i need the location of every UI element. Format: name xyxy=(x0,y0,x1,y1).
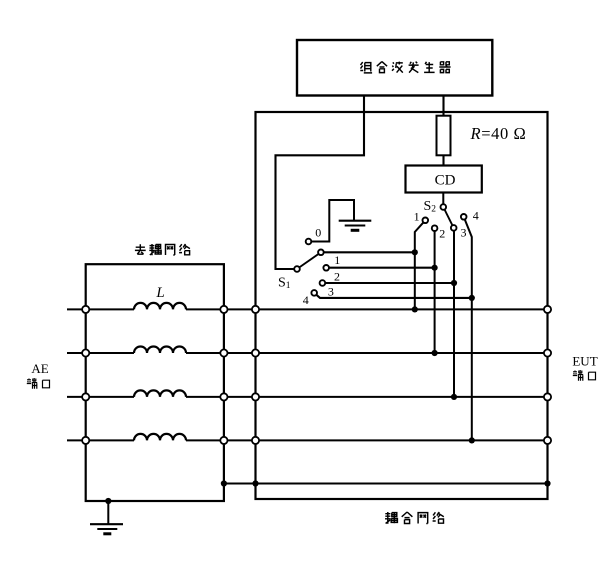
svg-text:4: 4 xyxy=(473,209,479,223)
wire: power line 1 xyxy=(67,308,548,310)
node: wire1/V1 junction xyxy=(412,249,418,255)
decoupling network box xyxy=(86,264,224,501)
switch S2 arm (pole to contact 3) xyxy=(443,207,453,228)
terminal: line 3 at coupling right edge xyxy=(544,393,551,400)
node: wire3/V3 junction xyxy=(451,280,457,286)
terminal: line 2 at decoupling left edge xyxy=(82,349,89,356)
terminal: line 4 at coupling right edge xyxy=(544,437,551,444)
wire: S1 contact 4 to node V4 xyxy=(314,293,472,298)
label "耦合网络" (coupling network label) xyxy=(385,512,444,524)
CD box (coupling device) xyxy=(406,166,482,193)
wire: CD to S2 pole xyxy=(442,193,444,208)
svg-text:EUT: EUT xyxy=(572,353,597,368)
wire: power line 3 xyxy=(67,396,548,398)
terminal: line 1 at coupling right edge xyxy=(544,306,551,313)
label "去耦网络" (decoupling network label) xyxy=(135,244,190,255)
node: ground tap on decoupling box xyxy=(105,498,111,504)
S2 contact 1 xyxy=(423,218,429,224)
switch S2 pole xyxy=(441,204,447,210)
earth/ground symbol lower xyxy=(90,524,123,534)
wire: generator left output to S1 pole xyxy=(276,96,365,270)
S2 contact 4 xyxy=(461,214,467,220)
S1 contact 0 xyxy=(306,239,312,245)
earth/ground symbol upper xyxy=(339,221,372,231)
svg-text:2: 2 xyxy=(439,227,445,241)
terminal: line 4 at decoupling right edge xyxy=(220,437,227,444)
switch S1 arm (pole to contact 1) xyxy=(297,252,321,269)
wire: S1 contact 0 to earth bracket xyxy=(309,200,355,242)
wire: resistor to CD box xyxy=(442,155,444,166)
inductor L on line 4 xyxy=(134,434,186,441)
label "端口" (AE port cjk) xyxy=(27,378,50,389)
svg-text:R=40 Ω: R=40 Ω xyxy=(470,124,527,143)
svg-text:0: 0 xyxy=(315,226,321,240)
node: wire4/V4 junction xyxy=(469,295,475,301)
terminal: line 2 at decoupling right edge xyxy=(220,349,227,356)
node: wire2/V2 junction xyxy=(432,265,438,271)
terminal: line 1 at coupling left edge xyxy=(252,306,259,313)
S1 contact 1 xyxy=(318,250,324,256)
wire: S1 contact 1 to node V1 xyxy=(321,251,415,253)
node: V4 on line 4 xyxy=(469,437,475,443)
S1 contact 2 xyxy=(323,265,329,271)
terminal: line 1 at decoupling right edge xyxy=(220,306,227,313)
terminal: line 4 at coupling left edge xyxy=(252,437,259,444)
S1 contact 3 xyxy=(320,280,326,286)
node: PE at coupling box left edge xyxy=(252,480,258,486)
svg-text:4: 4 xyxy=(303,293,309,307)
terminal: line 2 at coupling left edge xyxy=(252,349,259,356)
inductor L on line 3 xyxy=(134,390,186,397)
terminal: line 1 at decoupling left edge xyxy=(82,306,89,313)
terminal: line 3 at decoupling right edge xyxy=(220,393,227,400)
wire: S1 contact 3 to node V3 xyxy=(322,282,454,284)
wire: power line 4 xyxy=(67,439,548,441)
S2 contact 2 xyxy=(432,225,438,231)
S1 contact 4 xyxy=(311,290,317,296)
svg-text:2: 2 xyxy=(334,269,340,283)
wire: S1 contact 2 to node V2 xyxy=(326,267,434,269)
svg-text:L: L xyxy=(155,285,164,301)
generator box U1 (combination wave generator) xyxy=(297,40,492,96)
terminal: line 4 at decoupling left edge xyxy=(82,437,89,444)
inductor L on line 1 xyxy=(134,303,186,309)
wire: S2 contact 1 drop to line 1 xyxy=(415,220,426,309)
terminal: line 2 at coupling right edge xyxy=(544,349,551,356)
svg-text:1: 1 xyxy=(334,253,340,267)
resistor R = 40 ohm xyxy=(437,116,451,156)
terminal: line 3 at coupling left edge xyxy=(252,393,259,400)
node: V3 on line 3 xyxy=(451,394,457,400)
svg-text:1: 1 xyxy=(414,209,420,223)
wire: PE / earth reference line xyxy=(224,483,548,485)
svg-text:CD: CD xyxy=(435,172,456,188)
wire: decoupling box to earth xyxy=(107,501,109,524)
inductor L on line 2 xyxy=(134,347,186,354)
node: V2 on line 2 xyxy=(432,350,438,356)
switch S1 pole xyxy=(294,266,300,272)
terminal: line 3 at decoupling left edge xyxy=(82,393,89,400)
svg-text:3: 3 xyxy=(328,285,334,299)
wire: generator right output down to resistor xyxy=(442,96,444,117)
svg-text:AE: AE xyxy=(31,361,48,376)
wire: S2 contact 3 drop to line 3 xyxy=(453,228,455,397)
coupling network box xyxy=(256,112,548,499)
wire: S2 contact 2 drop to line 2 xyxy=(434,228,436,353)
svg-text:3: 3 xyxy=(461,225,467,239)
node: PE at decoupling box edge xyxy=(221,480,227,486)
wire: power line 2 xyxy=(67,352,548,354)
wire: S2 contact 4 drop to line 4 xyxy=(464,217,472,441)
label "端口" (EUT port cjk) xyxy=(573,370,596,381)
S2 contact 3 xyxy=(451,225,457,231)
node: V1 on line 1 xyxy=(412,306,418,312)
node: PE at coupling box right edge xyxy=(544,480,550,486)
label "组合波发生器" (generator text) xyxy=(360,62,450,73)
